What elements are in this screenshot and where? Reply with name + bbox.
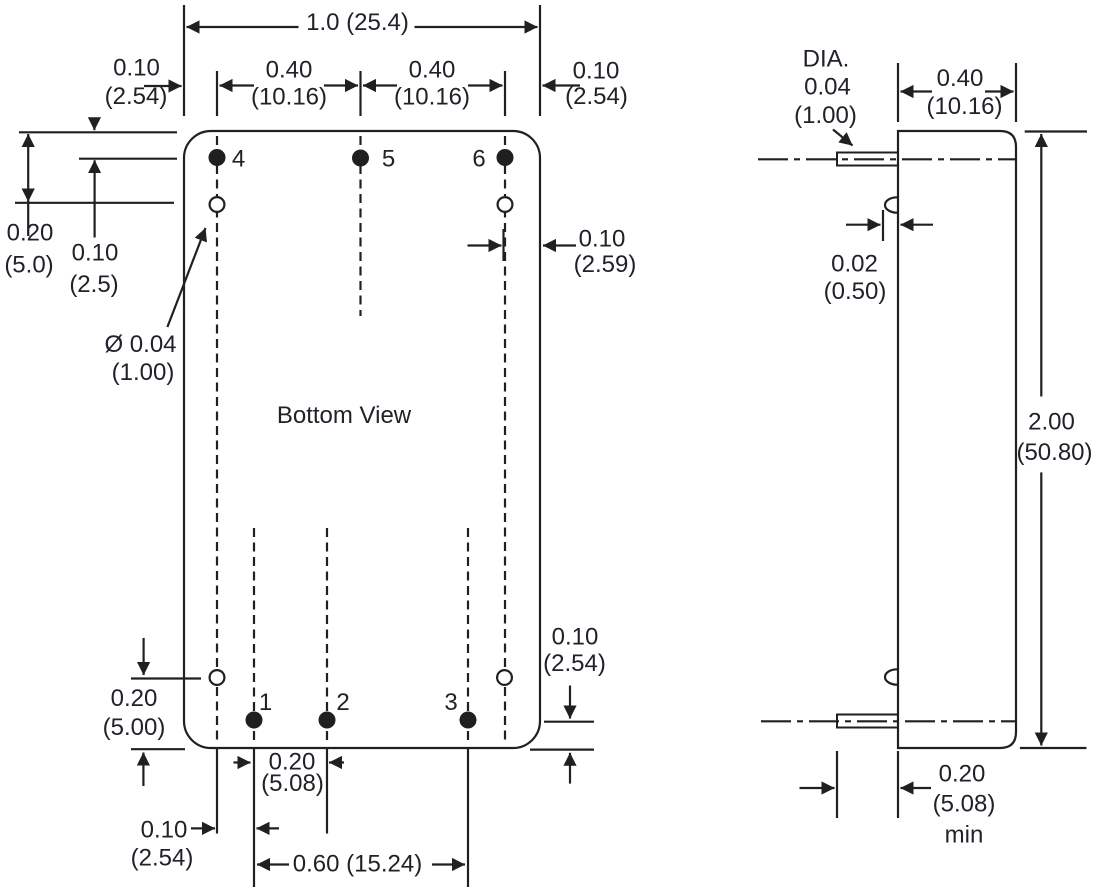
dimension 0.60 (15.24) pin1-pin3 right arrow <box>432 863 465 865</box>
dimension 0.20 (5.08) min : tick left <box>836 751 838 818</box>
extension line pin6 column (top) <box>504 71 506 116</box>
dimension 0.10 (2.54) bottom-right down arrow <box>569 686 571 719</box>
dimension 2.00 (50.80) lower segment <box>1040 472 1042 745</box>
pin bottom (side view) <box>837 715 898 728</box>
extension line body left edge (top) <box>183 5 185 116</box>
leader arrow to hole dia <box>167 228 205 327</box>
extension line pin3 column below body <box>467 749 469 887</box>
dimension 0.20 (5.0) vertical left <box>27 134 29 168</box>
centerline bottom pin (dash-dot) <box>761 720 1015 722</box>
extension line body right edge (top) <box>539 5 541 116</box>
dimension 0.40 (10.16) pin4-pin5 <box>220 84 255 86</box>
svg-text:2.00: 2.00 <box>1028 409 1075 436</box>
pin column centerline pin1 (dashed) <box>253 528 255 745</box>
svg-text:(2.54): (2.54) <box>565 83 628 110</box>
extension line hole-row level bottom-left <box>131 677 201 679</box>
dimension 0.02 (0.50) tick <box>882 210 884 241</box>
extension line pin2 column below body <box>326 749 328 834</box>
pin column centerline pin5 (dashed) <box>359 136 361 316</box>
svg-text:5: 5 <box>382 146 395 173</box>
extension line pin-row level bottom-right <box>544 721 594 723</box>
leader arrow DIA to pin <box>833 130 853 146</box>
pin 4 <box>210 150 225 165</box>
svg-text:(0.50): (0.50) <box>824 278 887 305</box>
dimension 0.60 (15.24) pin1-pin3 left arrow <box>257 863 289 865</box>
extension line side top level <box>1025 130 1087 132</box>
extension line hole-row level (left) <box>15 202 174 204</box>
svg-text:6: 6 <box>472 146 485 173</box>
mounting hole top-right <box>498 197 513 212</box>
extension line body-top level (left) <box>19 131 177 133</box>
pin column centerline pin4 (dashed) <box>216 136 218 745</box>
dimension 0.20 (5.08) min : tick right <box>897 751 899 818</box>
svg-text:0.02: 0.02 <box>831 251 878 278</box>
mounting hole bottom-left <box>210 670 225 685</box>
pin column centerline pin6 (dashed) <box>504 136 506 745</box>
dimension 0.40 (10.16) side left arrow <box>901 90 933 92</box>
package body outline (side view) <box>898 131 1016 748</box>
svg-text:(5.08): (5.08) <box>261 770 324 797</box>
svg-text:0.40: 0.40 <box>937 65 984 92</box>
svg-text:0.10: 0.10 <box>579 226 626 253</box>
svg-text:(2.54): (2.54) <box>131 845 194 872</box>
extension line pin1 column below body <box>253 749 255 887</box>
svg-text:(1.00): (1.00) <box>112 359 175 386</box>
svg-text:2: 2 <box>336 689 349 716</box>
svg-text:0.10: 0.10 <box>72 240 119 267</box>
extension line pin5 column (top) <box>359 71 361 116</box>
pin column centerline pin3 (dashed) <box>467 528 469 745</box>
extension line body-bottom level bottom-left <box>131 748 185 750</box>
extension line side body left (top) <box>897 63 899 122</box>
pin column centerline pin2 (dashed) <box>326 528 328 745</box>
svg-text:(2.54): (2.54) <box>543 650 606 677</box>
svg-text:0.20: 0.20 <box>7 220 54 247</box>
extension line pin-row level (left) <box>79 158 177 160</box>
pin 6 <box>498 150 513 165</box>
svg-text:Ø 0.04: Ø 0.04 <box>104 331 176 358</box>
pin top (side view) <box>837 153 898 166</box>
dimension 0.02 (0.50) right arrow <box>901 224 934 226</box>
svg-text:1: 1 <box>259 689 272 716</box>
svg-text:(5.0): (5.0) <box>4 252 53 279</box>
svg-text:0.10: 0.10 <box>113 55 160 82</box>
svg-text:0.10: 0.10 <box>573 58 620 85</box>
svg-text:0.10: 0.10 <box>552 624 599 651</box>
dimension 0.10 (2.59) pin6 to edge : tick <box>502 229 504 261</box>
dimension 0.10 (2.5) vertical left <box>93 119 95 130</box>
svg-text:(10.16): (10.16) <box>394 84 470 111</box>
dimension 0.20 (5.08) pin1-pin2 right arrow <box>329 761 344 763</box>
pin 2 <box>320 713 335 728</box>
svg-text:(2.5): (2.5) <box>69 271 118 298</box>
extension line body-bottom level bottom-right <box>530 748 594 750</box>
svg-text:0.10: 0.10 <box>141 817 188 844</box>
svg-text:0.40: 0.40 <box>409 57 456 84</box>
svg-text:(2.54): (2.54) <box>105 83 168 110</box>
svg-text:3: 3 <box>444 689 457 716</box>
svg-text:(2.59): (2.59) <box>574 251 637 278</box>
svg-text:min: min <box>945 822 984 849</box>
svg-text:DIA.: DIA. <box>803 46 850 73</box>
standoff bump top (side view) <box>885 197 909 212</box>
dimension 0.10 (2.54) pin4col-pin1 left arrow <box>191 827 215 829</box>
svg-text:(5.08): (5.08) <box>933 791 996 818</box>
package body outline (bottom view) <box>184 131 540 748</box>
svg-text:(10.16): (10.16) <box>251 84 327 111</box>
dimension 0.20 (5.08) min right arrow <box>901 787 932 789</box>
svg-text:0.20: 0.20 <box>939 761 986 788</box>
svg-text:1.0 (25.4): 1.0 (25.4) <box>306 9 409 36</box>
svg-text:0.40: 0.40 <box>266 57 313 84</box>
svg-text:0.04: 0.04 <box>804 74 851 101</box>
svg-text:(5.00): (5.00) <box>103 714 166 741</box>
dimension 0.20 (5.00) up arrow <box>142 753 144 787</box>
dimension 0.02 (0.50) left arrow <box>846 224 881 226</box>
pin 5 <box>353 151 368 166</box>
dimension 0.40 (10.16) side right arrow <box>985 90 1014 92</box>
pin 1 <box>247 713 262 728</box>
dimension 1.0 (25.4) overall width <box>187 26 299 28</box>
svg-text:0.20: 0.20 <box>111 685 158 712</box>
extension line pin4 column below body <box>216 749 218 834</box>
dimension 0.20 (5.08) min left arrow <box>800 787 835 789</box>
svg-text:Bottom View: Bottom View <box>277 402 412 429</box>
dimension 0.10 (2.59) right arrow <box>543 244 576 246</box>
dimension 0.10 (2.54) bottom-right up arrow <box>569 753 571 784</box>
dimension 0.20 (5.00) down arrow <box>143 638 145 675</box>
standoff bump bottom (side view) <box>885 669 909 684</box>
dimension 0.10 (2.54) top-left arrow <box>144 85 182 87</box>
extension line side body right (top) <box>1015 63 1017 122</box>
extension line side bottom level <box>1020 747 1087 749</box>
svg-text:(1.00): (1.00) <box>794 102 857 129</box>
mounting hole top-left <box>210 197 225 212</box>
svg-text:(10.16): (10.16) <box>926 93 1002 120</box>
pin 3 <box>461 713 476 728</box>
centerline top pin (dash-dot) <box>758 158 1015 160</box>
svg-text:4: 4 <box>232 146 245 173</box>
dimension 2.00 (50.80) upper segment <box>1040 134 1042 397</box>
dimension 0.10 (2.54) top-right arrow <box>543 84 581 86</box>
extension line pin4 column (top) <box>216 71 218 116</box>
svg-text:0.60 (15.24): 0.60 (15.24) <box>293 851 422 878</box>
dimension 0.20 (5.08) pin1-pin2 left arrow <box>234 761 251 763</box>
dimension 0.40 (10.16) pin5-pin6 <box>363 84 397 86</box>
mounting hole bottom-right <box>497 670 512 685</box>
dimension 0.10 (2.54) pin4col-pin1 right arrow <box>257 827 280 829</box>
dimension 0.10 (2.59) left arrow <box>468 244 502 246</box>
svg-text:(50.80): (50.80) <box>1016 439 1092 466</box>
